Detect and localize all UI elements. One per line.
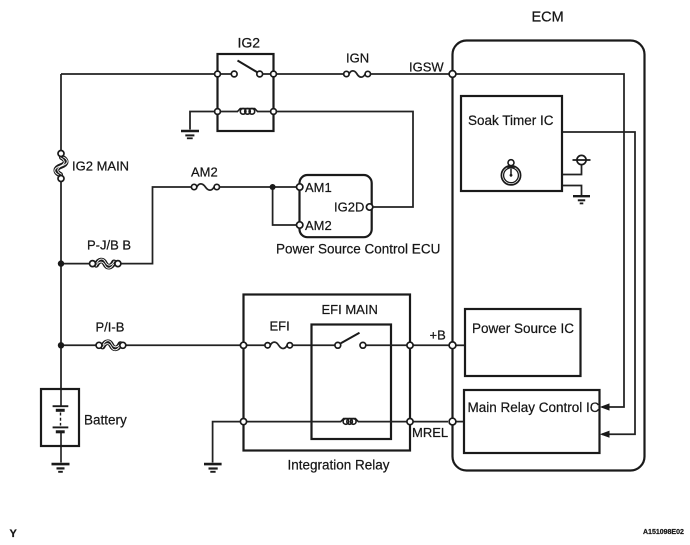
IG2 coil wire [220, 111, 238, 113]
wire: AM2 fuse to AM1 pin with junction [220, 186, 298, 188]
svg-text:Battery: Battery [84, 413, 127, 428]
svg-text:AM2: AM2 [305, 218, 332, 233]
Power Source Control ECU box [300, 175, 372, 237]
ground in ECM [573, 196, 590, 203]
wire: soak timer to ground [563, 186, 582, 196]
wire: +B to ECM [413, 344, 449, 346]
svg-text:A151098E02: A151098E02 [643, 529, 684, 536]
ECM edge node MREL [449, 418, 456, 425]
pin AM1 [297, 184, 303, 190]
svg-text:EFI: EFI [270, 319, 290, 334]
svg-text:IGN: IGN [346, 51, 369, 66]
wire: switch to +B through boxes [366, 344, 407, 346]
svg-text:ECM: ECM [532, 10, 564, 26]
wire: IGSW into ECM down to Main Relay Control IC arrow [456, 74, 625, 407]
Main Relay Control IC box [464, 390, 600, 453]
arrowhead into Main Relay Control IC pin 1 [600, 403, 610, 410]
node: junction on left rail at P-J/B B [58, 260, 64, 266]
wire: integration relay left edge to EFI fuse [247, 344, 266, 346]
svg-text:IG2: IG2 [238, 35, 261, 51]
svg-text:P-J/B B: P-J/B B [87, 238, 131, 253]
svg-text:AM2: AM2 [191, 165, 218, 180]
wire: left rail lower segment (IG2 MAIN fuse to battery) [60, 181, 62, 391]
ground below IG2 [181, 131, 199, 138]
wire: soak timer output to Main Relay Control IC arrow [563, 132, 635, 434]
node: junction on left rail at P/I-B [58, 342, 64, 348]
Power Source IC box [465, 309, 581, 376]
svg-text:Power Source IC: Power Source IC [472, 321, 574, 336]
wire: AM2 feed from P-J/B B fuse [64, 263, 90, 265]
IG2 coil edge circles [215, 109, 221, 115]
wire: IG2 coil to ground [190, 112, 215, 130]
fusible link P-J/B B [90, 259, 121, 268]
wire: EFI fuse to EFI MAIN switch [293, 344, 336, 346]
wire: left rail upper segment (to IG2 MAIN fuse) [60, 74, 62, 152]
Integration Relay box [244, 295, 411, 451]
svg-text:IG2 MAIN: IG2 MAIN [72, 159, 129, 174]
wire: junction down to AM2 pin [273, 187, 297, 225]
fusible link IG2 MAIN [55, 151, 68, 182]
wire: MREL to ECM [413, 421, 448, 423]
svg-text:P/I-B: P/I-B [96, 320, 125, 335]
svg-text:Soak Timer IC: Soak Timer IC [468, 113, 554, 128]
battery internals [53, 390, 69, 463]
IG2 switch blade [238, 61, 259, 74]
ECM edge node +B [449, 342, 456, 349]
EFI MAIN switch blade [341, 333, 360, 343]
fusible link P/I-B [96, 341, 126, 350]
arrowhead into Main Relay Control IC pin 2 [600, 431, 610, 438]
ground at integration relay [204, 464, 222, 472]
pin AM2 [297, 222, 303, 228]
fuse EFI [265, 342, 293, 348]
svg-text:Integration Relay: Integration Relay [288, 458, 390, 473]
terminal (circle with bar) [577, 155, 586, 164]
IG2 switch contacts wire [220, 73, 232, 75]
svg-text:MREL: MREL [412, 425, 448, 440]
relay IG2 box [218, 54, 274, 131]
svg-text:+B: +B [430, 328, 446, 343]
EFI MAIN relay box [312, 325, 392, 440]
wire: soak timer to terminal [563, 165, 582, 175]
svg-text:IG2D: IG2D [334, 200, 364, 215]
EFI MAIN switch contacts [335, 342, 341, 348]
ground below battery [52, 464, 70, 472]
IG2 coil [238, 109, 258, 115]
fuse AM2 [191, 184, 219, 190]
wire: ECM edge to Main Relay Control IC [456, 421, 465, 423]
svg-text:AM1: AM1 [305, 180, 332, 195]
fuse IGN [344, 71, 371, 77]
Soak Timer IC box [461, 96, 562, 191]
Battery box [41, 389, 79, 446]
svg-text:Power Source Control ECU: Power Source Control ECU [276, 242, 440, 257]
node: junction AM1/AM2 [270, 184, 276, 190]
svg-text:Main Relay Control IC: Main Relay Control IC [468, 400, 600, 415]
wire: integration relay to ground [213, 422, 241, 463]
stopwatch icon [501, 160, 520, 185]
EFI MAIN coil [341, 419, 358, 425]
IG2 switch contact circles [215, 71, 221, 77]
svg-text:IGSW: IGSW [409, 60, 444, 75]
wire: IG2D to IG2 relay coil [276, 112, 413, 208]
ECM box [453, 41, 645, 471]
svg-text:EFI MAIN: EFI MAIN [322, 302, 378, 317]
wire: ECM edge to Power Source IC [456, 344, 466, 346]
node IGSW [449, 71, 456, 78]
wire: +B line from rail to integration relay [64, 344, 97, 346]
wire: top feed from left rail to IG2 relay [61, 73, 217, 75]
wire: IGN fuse to IGSW [371, 73, 450, 75]
wire: MREL coil line inside integration relay [247, 421, 342, 423]
integration relay edge circles [240, 342, 246, 348]
svg-text:Y: Y [10, 528, 18, 540]
